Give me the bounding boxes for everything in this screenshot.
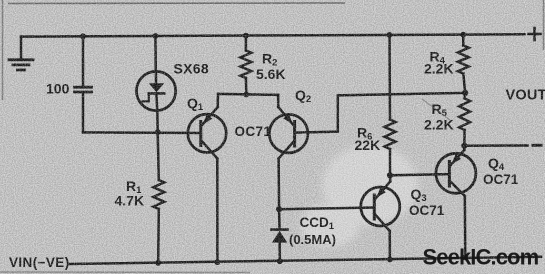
node rail-R2 — [243, 33, 249, 39]
wire output minus — [464, 144, 527, 147]
node Q2c-CCD1-Q3b — [276, 206, 282, 212]
scan smudge highlights — [300, 145, 418, 247]
svg-text:SeekIC.com: SeekIC.com — [423, 245, 539, 270]
wire top supply rail — [21, 34, 525, 36]
label Q2 — [295, 87, 311, 105]
node rail-R4 — [460, 32, 466, 38]
node R6-Q3e-Q4b — [387, 172, 393, 178]
node VIN-CCD1 — [277, 258, 283, 264]
resistor R4 — [458, 35, 469, 93]
capacitor C1 plates — [75, 87, 92, 92]
ground — [9, 37, 33, 70]
resistor R5 — [459, 93, 470, 146]
wire Q4 emitter riser — [463, 146, 466, 150]
transistor Q2 — [269, 107, 308, 159]
label OC71 Q1 — [235, 124, 272, 139]
node VIN-R1 — [155, 260, 161, 266]
node - terminal — [533, 144, 541, 147]
wire Q2 base feedback — [295, 93, 466, 133]
wire shared emitter node — [218, 94, 278, 95]
node rail-cap — [80, 33, 86, 39]
wire Q4 collector to VIN rail — [464, 196, 467, 258]
current diode CCD1 — [272, 209, 288, 261]
label R5 — [432, 101, 448, 119]
label 4.7K — [115, 193, 145, 209]
label 0.5MA — [289, 232, 336, 247]
wire Q3 base — [279, 208, 374, 210]
resistor R2 — [240, 36, 251, 95]
node VIN-Q3c — [387, 257, 393, 263]
transistor Q4 — [436, 150, 476, 196]
capacitor C1 lead bottom — [82, 93, 85, 132]
node base Q1 junction — [155, 129, 161, 135]
label SX68 — [174, 61, 209, 77]
wire Q2 emitter riser — [277, 95, 280, 107]
node R5-Q4e-output — [461, 143, 467, 149]
wire Q3 emitter riser — [389, 175, 392, 181]
wire bottom VIN rail — [70, 257, 541, 264]
watermark SeekIC.com — [423, 245, 539, 270]
wire Q1 collector to VIN rail — [216, 159, 219, 263]
transistor Q1 — [188, 107, 226, 159]
label R1 — [126, 178, 142, 196]
wire Q3 collector to VIN rail — [388, 231, 391, 260]
zener diode SX68 lead top — [154, 36, 157, 71]
label OC71 Q3 — [409, 203, 445, 218]
label R2 — [262, 51, 277, 69]
capacitor C1 lead top — [82, 36, 85, 86]
resistor R1 — [153, 132, 164, 263]
label Q1 — [187, 95, 204, 113]
transistor Q3 — [361, 182, 400, 232]
node + terminal — [529, 28, 541, 40]
label Q4 — [488, 155, 505, 173]
label R6 — [357, 125, 372, 143]
label 2.2K R5 — [424, 117, 454, 133]
wire Q1 emitter riser — [216, 94, 219, 107]
wire Q2 collector drop — [277, 159, 280, 210]
label 5.6K — [256, 66, 286, 82]
label OC71 Q4 — [483, 172, 519, 187]
node rail-R6 — [387, 32, 393, 38]
node VIN-Q1c — [215, 259, 221, 265]
label VOUT — [506, 88, 545, 104]
label 100 — [46, 81, 70, 97]
node rail-SX68 — [153, 33, 159, 39]
label Q3 — [411, 186, 427, 204]
zener diode SX68 body — [137, 71, 176, 110]
label R4 — [430, 49, 446, 67]
wire base node Q1 — [83, 131, 201, 134]
node emitter-R2 junction — [243, 92, 249, 98]
label 2.2K R4 — [424, 61, 454, 77]
label 22K — [355, 137, 381, 153]
wire Q3 emitter to Q4 base — [390, 174, 449, 175]
label VIN(-VE) — [9, 255, 70, 270]
label CCD1 — [300, 215, 335, 232]
resistor R6 — [385, 35, 396, 175]
node VIN-Q4c — [462, 255, 468, 261]
node feedback R4-R5 — [462, 90, 468, 96]
zener diode SX68 lead bottom — [156, 111, 159, 133]
